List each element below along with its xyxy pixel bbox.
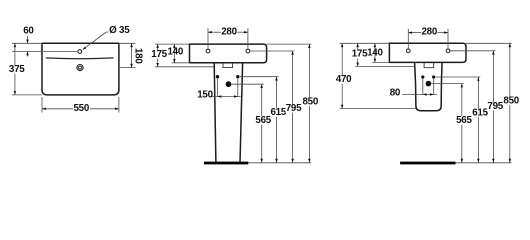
ext line 850 mid — [267, 43, 312, 45]
label 565 mid — [255, 115, 272, 126]
floor line thick middle — [204, 162, 248, 165]
pedestal front outline — [214, 63, 242, 163]
ext line 795 right — [450, 50, 495, 52]
label 615 mid — [270, 107, 287, 118]
svg-text:615: 615 — [270, 107, 286, 118]
svg-text:850: 850 — [503, 95, 519, 106]
semi-pedestal view basin outline — [389, 43, 466, 62]
svg-text:140: 140 — [367, 47, 383, 58]
svg-text:795: 795 — [286, 103, 302, 114]
ext line 565 mid — [232, 83, 264, 85]
label 550 — [73, 103, 90, 114]
dim 470 line — [341, 43, 344, 108]
svg-text:565: 565 — [255, 115, 271, 126]
svg-text:280: 280 — [221, 26, 237, 37]
dim 60 extension lines — [12, 43, 78, 51]
dim 280 right extensions — [408, 29, 448, 49]
label 375 — [9, 64, 26, 75]
dim 470 top extension — [340, 42, 390, 44]
label 280 right — [421, 27, 437, 38]
svg-text:550: 550 — [73, 103, 89, 114]
dim 850 mid line — [308, 44, 311, 162]
svg-text:175: 175 — [151, 49, 167, 60]
dim 140 right bottom extension — [372, 61, 389, 63]
label 795 mid — [285, 103, 302, 114]
svg-text:615: 615 — [472, 108, 488, 119]
dim 60 line and arrows — [26, 36, 29, 57]
right waste pipe dot — [426, 81, 432, 87]
front tap hole right — [246, 49, 250, 53]
dim 280 mid line — [208, 31, 248, 34]
svg-text:150: 150 — [197, 90, 213, 101]
overflow slot — [46, 57, 114, 60]
dim 565 mid line — [260, 84, 263, 162]
label 60 — [23, 26, 34, 37]
svg-text:470: 470 — [336, 74, 352, 85]
ext line 615 mid — [240, 76, 278, 78]
ext line 795 mid — [250, 50, 295, 52]
ext line 615 right — [436, 76, 480, 78]
label 470 — [336, 74, 353, 85]
dim 140 mid line — [173, 44, 176, 63]
dim 140 mid bottom extension — [172, 62, 190, 64]
floor line thin middle — [248, 162, 311, 164]
right tap hole left — [406, 49, 410, 53]
dim 550 extension lines — [42, 97, 119, 113]
ext line 850 right — [466, 42, 512, 44]
dim 470 bottom extension — [340, 108, 416, 110]
svg-text:795: 795 — [487, 101, 503, 112]
svg-text:375: 375 — [9, 64, 25, 75]
dim 795 mid line — [291, 51, 294, 163]
dim 615 mid line — [275, 77, 278, 163]
svg-text:Ø 35: Ø 35 — [109, 25, 130, 36]
label 140 mid — [167, 47, 183, 58]
leader line to tap hole — [83, 32, 109, 50]
label 615 right — [472, 108, 489, 119]
label 175 mid — [151, 49, 167, 60]
dim 550 line — [42, 108, 119, 111]
dim 565 right line — [461, 84, 464, 163]
label 175 right — [352, 49, 368, 60]
dim 375 line — [14, 43, 16, 95]
svg-text:140: 140 — [167, 47, 183, 58]
dim 175 mid bottom extension — [155, 66, 214, 68]
label 150 — [197, 90, 213, 101]
right fixing hole left — [421, 75, 424, 78]
svg-text:175: 175 — [352, 49, 368, 60]
dim 150 drop lines — [218, 79, 238, 97]
label 850 right — [503, 95, 520, 106]
dim 850 right line — [509, 43, 512, 162]
right fixing notch — [424, 62, 434, 67]
label 180 — [133, 48, 144, 64]
dim 80 drop lines — [423, 79, 434, 95]
label 80 — [390, 87, 401, 98]
dim 180 line — [130, 43, 133, 67]
label diameter 35 — [109, 25, 130, 36]
dim 615 right line — [477, 77, 480, 163]
svg-text:850: 850 — [302, 97, 318, 108]
right tap hole right — [446, 49, 450, 53]
dim 280 mid extensions — [208, 28, 248, 49]
label 280 mid — [221, 26, 237, 37]
waste pipe dot — [226, 81, 232, 87]
dim 175 right line — [356, 43, 359, 66]
label 795 right — [487, 101, 504, 112]
tap hole circle — [78, 50, 82, 54]
floor line thin right — [456, 162, 512, 164]
ext line 565 right — [431, 83, 464, 85]
dim 180 extension lines — [119, 43, 135, 67]
front tap hole left — [206, 49, 210, 53]
front view basin outline — [190, 44, 267, 63]
floor line thick right — [400, 162, 455, 165]
pedestal fixing hole right — [236, 75, 239, 78]
svg-text:180: 180 — [133, 48, 144, 64]
svg-text:565: 565 — [456, 115, 472, 126]
dim 140 right line — [374, 43, 377, 62]
waste outlet circles — [77, 65, 83, 71]
label 140 right — [367, 47, 383, 58]
svg-text:60: 60 — [23, 26, 34, 37]
dim 150 line — [212, 95, 241, 98]
right fixing hole right — [432, 75, 435, 78]
label 565 right — [456, 115, 473, 126]
dim 280 right line — [408, 31, 448, 34]
dim 795 right line — [492, 51, 495, 163]
label 850 mid — [302, 97, 319, 108]
semi-pedestal outline — [415, 62, 442, 110]
front fixing notch — [223, 63, 233, 68]
dim 175 mid line — [156, 44, 159, 67]
dim 175 right bottom extension — [355, 65, 415, 67]
dim 175 mid top extension — [155, 43, 189, 45]
dim 375 extension bottom — [12, 94, 42, 96]
svg-text:280: 280 — [421, 27, 437, 38]
svg-text:80: 80 — [390, 87, 401, 98]
washbasin plan view outline — [42, 43, 119, 95]
dim 80 line — [402, 93, 437, 96]
pedestal fixing hole left — [216, 75, 219, 78]
